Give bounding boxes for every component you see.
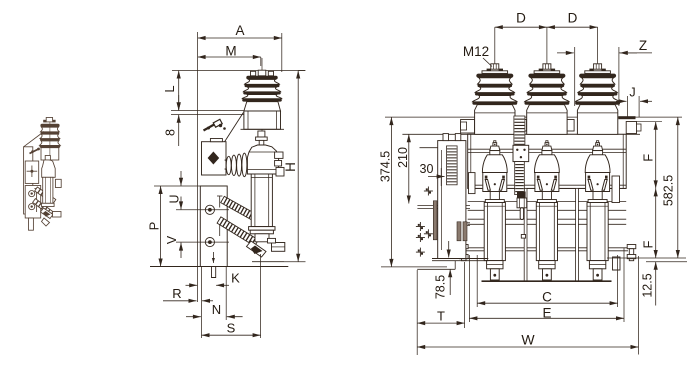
mini insulator stud bbox=[46, 118, 52, 122]
bushing cap middle view bbox=[246, 76, 277, 80]
dark link bar right bbox=[618, 116, 635, 119]
fuse clamp lower middle view bbox=[255, 234, 269, 242]
extension line M right / bushing stem bbox=[260, 57, 262, 66]
dim C bbox=[477, 302, 617, 304]
main frame bbox=[468, 134, 627, 188]
svg-text:M12: M12 bbox=[463, 44, 489, 59]
spring block bbox=[513, 145, 529, 161]
svg-text:M: M bbox=[225, 44, 236, 59]
dim D left bbox=[495, 26, 547, 28]
dim P bbox=[160, 186, 162, 267]
dim 78.5 bbox=[449, 269, 451, 295]
interrupter latch right bbox=[275, 152, 283, 158]
mini bottom tip bbox=[42, 218, 50, 226]
svg-text:W: W bbox=[521, 332, 535, 348]
dim 12.5 bbox=[655, 262, 657, 306]
dim N bbox=[186, 316, 201, 318]
contact fingers pole 1 bbox=[485, 176, 488, 179]
svg-text:Z: Z bbox=[639, 38, 647, 53]
bushing centerline middle view bbox=[261, 58, 263, 144]
svg-text:U: U bbox=[168, 194, 182, 203]
extension Z right bbox=[618, 47, 620, 106]
fuse tube hatching lower bbox=[217, 217, 258, 246]
pole centerline 2 bbox=[546, 27, 548, 63]
svg-text:V: V bbox=[165, 235, 179, 244]
bushing skirts middle view bbox=[245, 79, 280, 84]
upper frame box bbox=[202, 142, 227, 175]
dim F lower bbox=[655, 188, 657, 258]
mech top extension line bbox=[385, 116, 682, 118]
mini frame plate bbox=[24, 132, 44, 147]
svg-text:E: E bbox=[542, 305, 551, 320]
insulator skirts pole 3 bbox=[580, 78, 615, 84]
mini lower box bbox=[25, 186, 41, 219]
mini handle bbox=[30, 149, 40, 154]
svg-text:J: J bbox=[629, 86, 635, 100]
insulator stud pole 2 bbox=[543, 64, 551, 69]
pole centerline 3 bbox=[597, 27, 599, 63]
flange top line bbox=[629, 121, 662, 123]
svg-text:210: 210 bbox=[396, 147, 410, 168]
mini insulator skirts bbox=[41, 127, 60, 132]
contact fingers pole 3 bbox=[588, 176, 591, 179]
line 12.5 lower bbox=[646, 261, 687, 263]
H bottom extension bbox=[284, 261, 306, 263]
frame tie lines bbox=[468, 148, 627, 150]
mounting plate left bbox=[417, 268, 455, 270]
mechanism bottom plate bbox=[432, 258, 488, 260]
clamp bottom line bbox=[252, 261, 284, 263]
svg-text:F: F bbox=[641, 154, 656, 162]
bottom plate line bbox=[150, 266, 288, 268]
mini fuse tube hatching lower bbox=[33, 199, 53, 216]
svg-text:P: P bbox=[147, 222, 162, 231]
lower frame box bbox=[200, 186, 227, 267]
spring stem rod bbox=[520, 208, 523, 220]
insulator cap plate pole 1 bbox=[476, 74, 513, 78]
svg-text:R: R bbox=[172, 286, 181, 301]
extension lines below frame bbox=[201, 267, 203, 339]
mini upper box bbox=[25, 161, 39, 183]
operating handle icon bbox=[204, 124, 216, 131]
crosshair markers bbox=[416, 226, 425, 228]
fuse bottom cap pole 2 bbox=[539, 261, 555, 269]
svg-text:8: 8 bbox=[164, 129, 178, 136]
insulator skirts pole 2 bbox=[530, 78, 565, 84]
mechanism inner rods bbox=[457, 222, 461, 241]
mechanism box bbox=[438, 141, 466, 259]
dim J bbox=[616, 100, 627, 102]
left rail end bolt bbox=[460, 245, 469, 249]
bushing body middle view bbox=[244, 111, 281, 129]
dim E bbox=[469, 317, 624, 319]
bottom plate extension right view bbox=[381, 266, 447, 268]
svg-text:582.5: 582.5 bbox=[662, 175, 676, 206]
fuse barrel pole 1 bbox=[484, 203, 505, 261]
support leg left bbox=[524, 188, 527, 281]
right rail end bolt bbox=[627, 245, 636, 249]
line at fuse bottom right bbox=[607, 257, 686, 259]
right frame bracket mid bbox=[612, 176, 620, 203]
svg-text:D: D bbox=[568, 11, 578, 26]
contact circle upper bbox=[205, 205, 214, 214]
svg-text:S: S bbox=[227, 321, 236, 336]
dim R bbox=[163, 300, 197, 302]
clamp connecting rods bbox=[468, 201, 627, 203]
svg-text:N: N bbox=[212, 302, 221, 317]
extension W left bbox=[416, 270, 418, 355]
left frame bracket mid bbox=[469, 173, 476, 194]
insulator trunk pole 1 bbox=[475, 105, 515, 135]
svg-text:D: D bbox=[516, 11, 526, 26]
dim T bbox=[417, 322, 464, 324]
fuse holder neck pole 1 bbox=[490, 192, 499, 200]
mini clamp bbox=[41, 208, 54, 219]
svg-text:C: C bbox=[542, 289, 552, 304]
lower tie bar bbox=[466, 247, 628, 249]
insulator stud pole 3 bbox=[594, 64, 602, 69]
insulator cap plate pole 3 bbox=[579, 74, 616, 78]
mini insulator trunk bbox=[41, 148, 59, 160]
mini fuse tube hatching upper bbox=[35, 187, 56, 204]
pole centerline 1 bbox=[494, 27, 496, 63]
dim 8 bbox=[178, 95, 180, 110]
interrupter cylinder bbox=[251, 174, 272, 227]
fuse barrel pole 3 bbox=[587, 203, 608, 261]
dim A bbox=[198, 37, 282, 39]
svg-text:L: L bbox=[162, 85, 177, 92]
hook below frame bbox=[212, 267, 216, 278]
interlock rods bbox=[438, 222, 470, 224]
dim 374.5 bbox=[390, 117, 392, 267]
dim Z bbox=[557, 52, 574, 54]
dim L bbox=[178, 71, 180, 111]
dim K bbox=[186, 284, 198, 286]
bushing stud cluster middle view bbox=[251, 71, 256, 76]
connector bar between trunks 2-3 bbox=[567, 120, 574, 132]
svg-text:K: K bbox=[231, 271, 240, 286]
diamond marker bbox=[208, 152, 220, 165]
dim W bbox=[417, 346, 638, 348]
svg-text:H: H bbox=[283, 162, 298, 172]
H top extension part bbox=[298, 70, 305, 72]
tank top line bbox=[402, 133, 640, 135]
left end bracket bbox=[461, 120, 475, 134]
extension J lines bbox=[626, 96, 628, 117]
mechanism top bumps bbox=[443, 134, 449, 141]
svg-text:A: A bbox=[235, 23, 244, 38]
dim D right bbox=[547, 26, 598, 28]
insulator skirts pole 1 bbox=[478, 78, 513, 84]
moving contact bell pole 1 bbox=[482, 155, 507, 192]
support arm diagonal bbox=[225, 113, 244, 142]
right top bracket bbox=[626, 122, 636, 134]
dim U arrows bbox=[180, 171, 182, 186]
dim H bbox=[297, 71, 299, 262]
extension T right bbox=[464, 262, 466, 328]
extension Z left bbox=[574, 47, 576, 106]
svg-text:F: F bbox=[641, 240, 656, 248]
mini interrupter bbox=[45, 156, 50, 161]
extension line A left bbox=[197, 32, 199, 302]
frame mid line bbox=[154, 185, 227, 187]
fuse rail bbox=[468, 184, 627, 186]
dim 210 bbox=[408, 134, 410, 203]
extension C left bbox=[476, 255, 478, 307]
mechanism inner line bbox=[441, 150, 443, 250]
svg-text:12.5: 12.5 bbox=[641, 273, 655, 297]
spring lower bracket bbox=[517, 198, 527, 208]
mechanism spring strip bbox=[447, 146, 458, 185]
insulator trunk pole 3 bbox=[577, 105, 617, 135]
contact fingers pole 2 bbox=[537, 176, 540, 179]
base line bbox=[482, 280, 612, 282]
cylinder lower rings bbox=[249, 227, 275, 231]
upper frame box cap bbox=[210, 139, 222, 142]
moving contact bell pole 2 bbox=[535, 155, 560, 192]
bushing taper middle view bbox=[244, 102, 281, 111]
drive shaft lines bbox=[417, 205, 470, 207]
fuse bottom cap pole 3 bbox=[589, 261, 605, 269]
svg-text:374.5: 374.5 bbox=[379, 151, 393, 182]
support leg right bbox=[576, 188, 579, 281]
fuse bottom connector pole 1 bbox=[490, 269, 499, 280]
fuse bottom connector pole 2 bbox=[543, 269, 552, 280]
svg-text:78.5: 78.5 bbox=[434, 275, 448, 299]
insulator stud pole 1 bbox=[491, 64, 499, 69]
node line upper contact bbox=[176, 209, 229, 211]
mechanism side rod bbox=[433, 201, 437, 240]
link line left of box bbox=[420, 147, 438, 149]
tie bars behind barrels bbox=[468, 218, 627, 220]
line 8 lower bbox=[171, 114, 244, 116]
moving contact bell pole 3 bbox=[585, 155, 610, 192]
operating spring upper bbox=[514, 116, 525, 148]
extension line A right bbox=[281, 33, 283, 72]
dim F upper bbox=[655, 122, 657, 189]
mini latch right bbox=[55, 179, 61, 187]
operating spring lower bbox=[515, 162, 525, 195]
insulator trunk pole 2 bbox=[527, 105, 567, 135]
leg block bbox=[521, 235, 525, 239]
extension E left bbox=[468, 255, 470, 322]
extension W right bbox=[638, 256, 640, 355]
fuse holder neck pole 2 bbox=[542, 192, 551, 200]
line under L bbox=[171, 110, 244, 112]
dim 582.5 bbox=[677, 117, 679, 258]
interrupter stud middle view bbox=[258, 131, 265, 137]
fuse tube hatching upper bbox=[221, 196, 264, 224]
insulator cap plate pole 2 bbox=[528, 74, 565, 78]
extension E right bbox=[623, 248, 625, 322]
fuse barrel pole 2 bbox=[536, 203, 557, 261]
right lower hook bbox=[613, 257, 621, 270]
mini insulator cap bbox=[40, 124, 59, 127]
connector bar between trunks 1-2 bbox=[514, 120, 526, 132]
dim S bbox=[202, 334, 261, 336]
horizontal insulator ribs bbox=[225, 160, 250, 164]
dim V arrows bbox=[180, 243, 182, 258]
svg-text:T: T bbox=[437, 309, 445, 324]
contact circle lower bbox=[205, 238, 214, 247]
interrupter bell middle view bbox=[247, 145, 278, 174]
top terminal line bbox=[172, 70, 305, 72]
node line lower contact bbox=[176, 241, 229, 243]
fuse bottom connector pole 3 bbox=[593, 269, 602, 280]
t-bar marks bbox=[219, 196, 221, 208]
fuse holder neck pole 3 bbox=[593, 192, 602, 200]
dim 78.5 down arrow bbox=[448, 241, 450, 258]
mini foot bbox=[29, 218, 34, 230]
fuse bottom cap pole 1 bbox=[487, 261, 503, 269]
extension C right bbox=[617, 255, 619, 307]
dim M bbox=[198, 56, 261, 58]
svg-text:30: 30 bbox=[420, 162, 434, 176]
spring dark block bbox=[517, 192, 526, 199]
